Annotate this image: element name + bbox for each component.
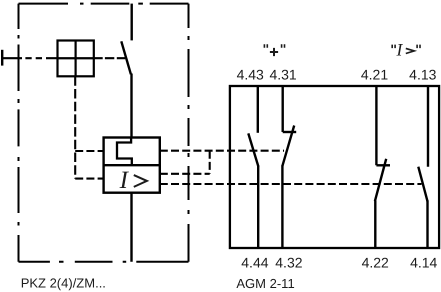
contact 4.31/4.32 lower wire xyxy=(281,166,283,247)
contact 4.21/4.22 seat bar xyxy=(376,164,390,166)
svg-text:4.31: 4.31 xyxy=(269,66,296,82)
trip unit divider xyxy=(104,164,160,166)
thermal overload release symbol (rectangular detour) xyxy=(117,138,132,166)
contact 4.43/4.44 (NO) upper wire xyxy=(257,87,259,133)
contact 4.21/4.22 moving blade xyxy=(375,159,386,201)
label I> inside trip unit: greater-than stroke xyxy=(134,175,147,187)
enclosure boundary left xyxy=(18,4,20,262)
dashed vertical trip linkage from operator square xyxy=(74,76,76,178)
label "I>" group heading: closing quote ticks xyxy=(417,45,420,49)
dashed stub into trip unit left, thermal compartment xyxy=(75,150,103,152)
svg-text:4.43: 4.43 xyxy=(237,66,264,82)
contact 4.21/4.22 lower wire xyxy=(374,201,376,248)
label "I>" group heading: opening quote ticks xyxy=(392,45,395,49)
contact 4.13/4.14 moving blade xyxy=(418,167,427,202)
operator square vertical cross line xyxy=(74,41,76,77)
operator square horizontal cross line xyxy=(58,57,94,59)
enclosure boundary bottom xyxy=(19,261,189,263)
wire: dashed mechanical link, square to main contact blade xyxy=(94,57,125,59)
dashed stub into trip unit left, magnetic compartment xyxy=(75,178,103,180)
contact 4.43/4.44 lower wire xyxy=(257,166,259,247)
label "+" group heading: opening quote ticks xyxy=(264,44,267,48)
dashed jog joining row 2 to row 1 xyxy=(209,151,211,174)
main contact: moving blade (NO) xyxy=(121,41,131,74)
svg-text:4.14: 4.14 xyxy=(410,255,437,271)
contact 4.31/4.32 (NC) upper wire xyxy=(282,87,284,132)
enclosure PKZ 2(4)/ZM... dash-dot boundary top xyxy=(19,3,189,5)
dashed trip row 1 (thermal+magnetic, to "+" contacts) xyxy=(160,150,284,152)
contact 4.21/4.22 (NC) upper wire xyxy=(375,87,377,165)
trip unit box (thermal + magnetic release) xyxy=(104,138,160,193)
svg-text:4.44: 4.44 xyxy=(241,255,268,271)
dashed trip row 2 (magnetic stub) xyxy=(160,173,210,175)
label "I>" group heading: greater-than stroke xyxy=(406,48,414,53)
AGM 2-11 auxiliary contact module box xyxy=(230,86,439,248)
wire: main contact to trip unit xyxy=(130,74,132,138)
label "+" group heading: closing quote ticks xyxy=(282,44,285,48)
enclosure boundary right xyxy=(188,4,190,262)
svg-text:AGM 2-11: AGM 2-11 xyxy=(236,276,294,291)
operator square (manual actuator) xyxy=(58,41,94,77)
svg-text:4.21: 4.21 xyxy=(361,66,388,82)
svg-text:I: I xyxy=(396,40,404,60)
svg-text:4.22: 4.22 xyxy=(362,255,389,271)
contact 4.43/4.44 moving blade xyxy=(248,133,258,166)
wire: dashed mechanical link, terminal to operator square xyxy=(2,57,57,59)
dashed trip row 3 (I> only, to "I>" contacts) xyxy=(160,183,422,185)
contact 4.31/4.32 moving blade xyxy=(282,126,294,167)
svg-text:4.32: 4.32 xyxy=(275,255,302,271)
main contact: upper fixed wire xyxy=(130,4,132,41)
contact 4.13/4.14 lower wire xyxy=(426,201,428,248)
label "+" group heading: plus sign xyxy=(270,48,278,56)
svg-text:4.13: 4.13 xyxy=(409,66,436,82)
contact 4.31/4.32 seat bar xyxy=(283,131,297,133)
contact 4.13/4.14 (NO) upper wire xyxy=(427,87,429,167)
wire: trip unit to bottom boundary xyxy=(130,193,132,262)
svg-text:PKZ 2(4)/ZM...: PKZ 2(4)/ZM... xyxy=(21,276,106,291)
node: incoming actuation terminal tick xyxy=(1,50,3,66)
